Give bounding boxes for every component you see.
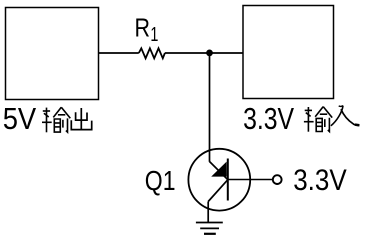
glyph 输 (shu) of 5V output caption [42,107,70,132]
svg-text:3.3V: 3.3V [243,101,294,136]
transistor Q1 circle [188,149,250,211]
wire collector to ground [207,202,209,223]
transistor collector diagonal [208,180,228,202]
wire from resistor to 3.3V input box [165,52,243,54]
glyph 出 (chu) of 5V output caption [71,108,91,130]
wire from junction down to transistor [209,53,211,162]
transistor base bar [227,159,229,201]
svg-text:5V: 5V [3,101,37,136]
terminal open circle [273,175,282,184]
junction node dot [206,50,213,57]
transistor emitter arrowhead [212,163,226,177]
svg-text:R: R [135,12,151,42]
svg-text:Q1: Q1 [145,165,176,196]
glyph 入 (ru) of 3.3V input caption [331,106,360,126]
glyph 输 (shu) of 3.3V input caption [304,107,332,132]
svg-text:1: 1 [150,24,158,46]
box 5V output block [6,8,99,100]
wire base to 3.3V terminal [228,179,273,181]
resistor R1 zigzag [139,48,165,58]
ground symbol [196,223,223,234]
box 3.3V input block [243,6,334,99]
wire from 5V box to resistor [99,52,139,54]
transistor emitter diagonal [210,162,228,180]
svg-text:3.3V: 3.3V [293,165,347,197]
